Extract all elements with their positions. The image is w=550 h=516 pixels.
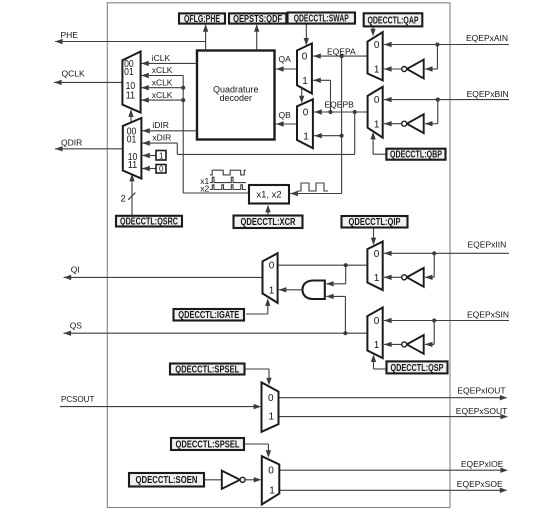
svg-text:decoder: decoder: [219, 93, 252, 103]
svg-text:0: 0: [303, 108, 309, 119]
svg-text:QDECCTL:QAP: QDECCTL:QAP: [368, 15, 419, 26]
svg-text:11: 11: [128, 160, 138, 171]
svg-text:01: 01: [127, 135, 137, 146]
svg-text:EQEPxSIN: EQEPxSIN: [467, 310, 509, 320]
svg-text:1: 1: [269, 485, 275, 496]
svg-text:0: 0: [302, 52, 308, 63]
svg-text:EQEPxSOE: EQEPxSOE: [457, 479, 503, 489]
svg-text:0: 0: [268, 466, 274, 477]
svg-text:1: 1: [374, 65, 380, 76]
svg-text:QDECCTL:QIP: QDECCTL:QIP: [349, 217, 401, 228]
svg-text:QA: QA: [279, 54, 292, 64]
svg-text:PCSOUT: PCSOUT: [61, 395, 94, 404]
svg-text:x2: x2: [200, 183, 209, 193]
svg-text:1: 1: [374, 273, 380, 284]
svg-text:QB: QB: [279, 110, 292, 120]
svg-text:QDECCTL:SPSEL: QDECCTL:SPSEL: [176, 439, 240, 450]
svg-text:xDIR: xDIR: [152, 132, 171, 142]
svg-text:0: 0: [374, 316, 380, 327]
svg-text:iDIR: iDIR: [152, 120, 169, 130]
svg-text:QCLK: QCLK: [62, 69, 85, 79]
svg-text:QDECCTL:IGATE: QDECCTL:IGATE: [178, 310, 239, 321]
svg-text:01: 01: [124, 67, 134, 78]
svg-text:1: 1: [269, 285, 275, 296]
svg-text:QDECCTL:SPSEL: QDECCTL:SPSEL: [175, 364, 239, 375]
svg-text:0: 0: [374, 95, 380, 106]
svg-text:1: 1: [374, 340, 380, 351]
svg-text:EQEPA: EQEPA: [327, 46, 356, 56]
svg-text:0: 0: [269, 261, 275, 272]
svg-text:PHE: PHE: [61, 30, 79, 40]
svg-text:QEPSTS:QDF: QEPSTS:QDF: [233, 14, 282, 25]
svg-text:xCLK: xCLK: [152, 77, 173, 87]
svg-text:2: 2: [121, 193, 126, 204]
svg-text:QDECCTL:QSRC: QDECCTL:QSRC: [120, 217, 178, 228]
svg-text:EQEPxIOE: EQEPxIOE: [461, 459, 504, 469]
svg-text:EQEPxIIN: EQEPxIIN: [468, 240, 507, 250]
svg-text:EQEPxIOUT: EQEPxIOUT: [457, 385, 505, 395]
svg-text:QS: QS: [70, 321, 83, 331]
svg-text:QDECCTL:XCR: QDECCTL:XCR: [241, 217, 297, 228]
svg-text:0: 0: [374, 249, 380, 260]
svg-text:EQEPxAIN: EQEPxAIN: [466, 33, 508, 43]
svg-text:0: 0: [268, 393, 274, 404]
svg-text:QFLG:PHE: QFLG:PHE: [184, 14, 220, 25]
svg-text:1: 1: [302, 76, 308, 87]
svg-text:QI: QI: [71, 265, 80, 275]
svg-text:0: 0: [374, 40, 380, 51]
svg-text:QDIR: QDIR: [61, 138, 82, 148]
svg-text:11: 11: [126, 90, 136, 101]
svg-text:QDECCTL:SWAP: QDECCTL:SWAP: [294, 13, 349, 24]
svg-text:EQEPB: EQEPB: [325, 100, 355, 110]
svg-text:QDECCTL:QBP: QDECCTL:QBP: [390, 150, 442, 161]
svg-text:EQEPxSOUT: EQEPxSOUT: [456, 406, 507, 416]
svg-text:QDECCTL:SOEN: QDECCTL:SOEN: [136, 475, 198, 486]
svg-text:xCLK: xCLK: [152, 65, 173, 75]
svg-text:1: 1: [303, 131, 309, 142]
svg-text:0: 0: [159, 165, 164, 174]
svg-text:1: 1: [159, 151, 164, 160]
svg-text:x1, x2: x1, x2: [256, 190, 281, 201]
svg-text:EQEPxBIN: EQEPxBIN: [467, 89, 509, 99]
svg-text:1: 1: [374, 119, 380, 130]
svg-text:QDECCTL:QSP: QDECCTL:QSP: [391, 363, 444, 374]
svg-text:iCLK: iCLK: [152, 53, 171, 63]
svg-text:1: 1: [269, 411, 275, 422]
svg-text:xCLK: xCLK: [152, 90, 173, 100]
